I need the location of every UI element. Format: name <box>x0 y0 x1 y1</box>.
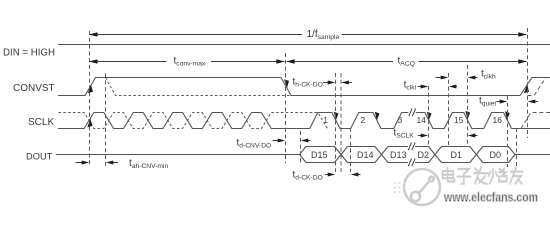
svg-text:D13: D13 <box>390 150 407 160</box>
dashed vertical reference x=300.4 <box>300 131 302 164</box>
CONVST waveform wire <box>58 78 550 96</box>
dimension t_d-CK-DO arrows <box>325 174 361 176</box>
dimension t_SCLK arrows <box>418 135 478 137</box>
svg-text:www.elecfans.com: www.elecfans.com <box>443 190 538 205</box>
svg-text:DIN = HIGH: DIN = HIGH <box>3 48 55 59</box>
dimension t_conv-max arrow <box>89 61 527 63</box>
glyph you <box>510 168 523 184</box>
dashed vertical reference x=350.6 <box>350 128 352 172</box>
dimension t_clkh arrows <box>436 77 478 79</box>
DOUT idle wire left <box>56 154 300 156</box>
dimension 1/f_sample arrow <box>89 34 526 36</box>
dashed vertical reference x=340.4 <box>340 73 342 172</box>
dashed vertical reference x=516.9 <box>516 128 518 167</box>
DOUT data cells lower zigzag <box>300 147 516 163</box>
CONVST dashed next-cycle rising edge <box>528 78 547 96</box>
DOUT break slash marks top edge <box>408 143 415 151</box>
dimension t_clkl arrows <box>418 86 458 88</box>
SCLK pulse 14 falling edge arrowhead <box>425 110 434 120</box>
watermark chinese text 电子发烧友 <box>443 167 523 184</box>
CONVST right rising edge arrowhead <box>522 85 531 95</box>
dashed vertical reference x=428.6 <box>428 86 430 146</box>
DOUT idle wire right <box>515 154 550 156</box>
dashed vertical reference x=334.9 <box>335 73 337 172</box>
svg-text:16: 16 <box>493 115 503 125</box>
dimension t_quiet arrows <box>497 101 539 103</box>
SCLK pulse 16 falling edge arrowhead <box>503 110 512 120</box>
dimension t_d-CNV-DO arrows <box>273 140 311 142</box>
glyph zi <box>457 169 470 184</box>
svg-text:3: 3 <box>398 115 403 125</box>
CONVST dotted early falling edge <box>106 78 291 96</box>
svg-text:D0: D0 <box>490 150 502 160</box>
glyph dian <box>443 168 455 182</box>
SCLK solid waveform wire <box>58 113 550 129</box>
svg-text:1: 1 <box>323 115 328 125</box>
dashed vertical reference x=467.8 <box>467 65 469 146</box>
SCLK dashed next-cycle rising edge <box>521 113 550 129</box>
watermark dot grid <box>394 182 405 193</box>
dashed vertical reference x=89 <box>89 31 91 167</box>
svg-text:2: 2 <box>361 115 366 125</box>
svg-text:SCLK: SCLK <box>28 117 54 128</box>
dashed vertical reference x=105.5 <box>105 74 107 168</box>
DOUT data cells upper zigzag <box>300 147 516 163</box>
SCLK pulse 2 falling edge arrowhead <box>373 110 382 120</box>
CONVST falling edge arrowhead <box>282 78 291 88</box>
svg-text:D2: D2 <box>418 150 430 160</box>
DIN high level wire <box>58 44 550 46</box>
glyph fa <box>474 167 488 184</box>
dashed vertical reference x=448.3 <box>448 73 450 146</box>
dashed vertical reference x=527 <box>527 28 529 138</box>
SCLK pulse 15 falling edge arrowhead <box>464 109 473 119</box>
CONVST rising edge arrowhead <box>86 85 95 95</box>
svg-text:14: 14 <box>417 115 427 125</box>
svg-text:D1: D1 <box>451 150 463 160</box>
dimension t_ah-CNV-min arrows <box>76 162 119 164</box>
svg-text:D14: D14 <box>357 150 374 160</box>
SCLK break slash marks <box>409 108 416 116</box>
DOUT break slash marks bottom edge <box>408 159 415 167</box>
dashed vertical reference x=507.5 <box>507 96 509 167</box>
glyph shao <box>489 168 507 183</box>
SCLK pulse 1 falling edge arrowhead <box>332 110 341 120</box>
dashed vertical reference x=285.5 <box>285 53 287 163</box>
svg-text:D15: D15 <box>311 150 328 160</box>
dimension t_ACQ arrow <box>286 59 295 64</box>
dimension t_h-CK-DO arrows <box>323 82 352 84</box>
svg-text:15: 15 <box>454 115 464 125</box>
watermark logo circle <box>404 169 440 205</box>
svg-text:CONVST: CONVST <box>13 83 55 94</box>
SCLK first rising edge arrowhead <box>86 119 95 130</box>
svg-text:DOUT: DOUT <box>26 152 53 162</box>
SCLK dotted complement clock <box>59 113 328 129</box>
